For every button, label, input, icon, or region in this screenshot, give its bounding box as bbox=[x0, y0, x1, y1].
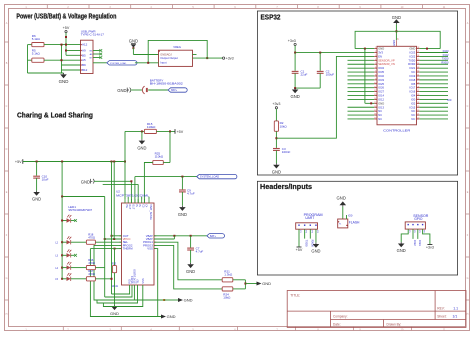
wire VBAT to BAT+ bbox=[154, 235, 207, 237]
wire R13 down gnd bbox=[114, 273, 116, 305]
svg-text:IO14: IO14 bbox=[378, 94, 384, 98]
svg-text:BH-18650-B1BA002: BH-18650-B1BA002 bbox=[150, 82, 183, 86]
svg-text:IO17: IO17 bbox=[409, 86, 415, 90]
svg-text:IO4: IO4 bbox=[411, 94, 416, 98]
svg-text:A5: A5 bbox=[82, 58, 86, 62]
wire B9 row bbox=[62, 64, 81, 66]
net flag BAT+ charging bbox=[207, 234, 225, 238]
junction dots power mesh bbox=[65, 36, 67, 38]
svg-text:IN: IN bbox=[135, 204, 138, 207]
svg-text:GND: GND bbox=[81, 179, 90, 184]
wire system_load to input bbox=[135, 62, 159, 64]
LED1 diode bbox=[67, 218, 71, 222]
svg-text:BAT+: BAT+ bbox=[210, 235, 216, 238]
svg-text:C: C bbox=[6, 105, 8, 108]
U2 top pins bbox=[124, 199, 126, 203]
resistor R2 bbox=[275, 109, 277, 121]
svg-text:Power (USB/Batt) & Voltage Reg: Power (USB/Batt) & Voltage Regulation bbox=[16, 14, 116, 21]
svg-text:GND: GND bbox=[110, 311, 119, 316]
svg-text:VSS: VSS bbox=[141, 278, 145, 283]
svg-text:R13: R13 bbox=[111, 262, 116, 266]
controller right wires bbox=[419, 48, 440, 50]
connector right pins bbox=[93, 50, 100, 52]
svg-text:REV:: REV: bbox=[437, 306, 444, 310]
+3v3 rail symbol bbox=[294, 43, 296, 45]
svg-text:CONTROLLER: CONTROLLER bbox=[383, 129, 411, 133]
capacitor C1 bbox=[294, 53, 296, 71]
svg-text:GND: GND bbox=[186, 269, 195, 274]
svg-text:PG: PG bbox=[125, 204, 128, 208]
wire gnd to battery bbox=[131, 89, 143, 91]
svg-text:OUT: OUT bbox=[131, 204, 134, 210]
net flag SYSTEM_LOAD power bbox=[107, 61, 137, 65]
net label IO0 flash bbox=[346, 215, 348, 219]
svg-text:Input: Input bbox=[160, 61, 166, 65]
wire PROG3 to R24 bbox=[154, 245, 222, 289]
LED column wire bbox=[61, 197, 63, 279]
svg-text:+5V: +5V bbox=[63, 26, 70, 30]
ground C7 bbox=[190, 263, 192, 264]
svg-text:IO0: IO0 bbox=[411, 97, 416, 101]
svg-text:IO32: IO32 bbox=[378, 74, 384, 78]
svg-text:SYSTEM_LOAD: SYSTEM_LOAD bbox=[200, 175, 219, 179]
svg-text:22uF: 22uF bbox=[301, 73, 308, 77]
svg-text:B5: B5 bbox=[82, 53, 86, 57]
title block bbox=[287, 291, 466, 328]
svg-text:470Ω: 470Ω bbox=[88, 272, 95, 276]
wire vreg output bbox=[193, 54, 197, 56]
svg-text:IN: IN bbox=[138, 204, 141, 207]
+3v3 port sensor bbox=[427, 244, 432, 246]
svg-text:IO2: IO2 bbox=[411, 101, 416, 105]
svg-text:1.3kΩ: 1.3kΩ bbox=[224, 273, 233, 277]
net flag SYSTEM_LOAD charging bbox=[135, 176, 197, 178]
svg-text:GND: GND bbox=[378, 47, 384, 51]
ground C3 bbox=[275, 163, 277, 164]
svg-text:GND: GND bbox=[311, 249, 320, 254]
svg-text:A9: A9 bbox=[82, 49, 86, 53]
svg-text:IO26: IO26 bbox=[378, 86, 384, 90]
svg-text:GPIO: GPIO bbox=[414, 217, 423, 221]
svg-text:GND: GND bbox=[178, 212, 187, 217]
svg-text:10kΩ: 10kΩ bbox=[223, 296, 231, 300]
svg-text:GND: GND bbox=[262, 281, 271, 286]
program header pin wires bbox=[298, 229, 300, 247]
svg-text:GND: GND bbox=[167, 314, 176, 319]
svg-text:C: C bbox=[467, 105, 469, 108]
svg-text:+3v3: +3v3 bbox=[226, 57, 234, 61]
svg-text:10uF: 10uF bbox=[42, 177, 49, 181]
wire OUT net bbox=[112, 235, 122, 237]
svg-text:SENSOR_VP: SENSOR_VP bbox=[378, 58, 395, 62]
wire resistors join gnd bbox=[244, 280, 246, 289]
svg-text:4.7uF: 4.7uF bbox=[187, 192, 195, 196]
svg-text:Charing & Load Sharing: Charing & Load Sharing bbox=[17, 112, 93, 119]
+3v3 EN pullup symbol bbox=[275, 107, 277, 109]
gnd right port 2 bbox=[161, 315, 166, 319]
svg-text:IO5: IO5 bbox=[411, 82, 416, 86]
wire R5 to A5 bbox=[44, 59, 81, 61]
svg-text:Date:: Date: bbox=[333, 323, 341, 327]
capacitor C9 bbox=[181, 177, 183, 190]
svg-text:VSS: VSS bbox=[147, 247, 153, 251]
svg-text:G: G bbox=[467, 277, 469, 280]
svg-text:IO22: IO22 bbox=[409, 54, 415, 58]
svg-text:H: H bbox=[6, 313, 8, 316]
gnd right port 1 bbox=[257, 282, 262, 286]
svg-text:Drawn By:: Drawn By: bbox=[387, 323, 402, 327]
svg-text:NC: NC bbox=[411, 113, 415, 117]
svg-text:IO33: IO33 bbox=[378, 78, 384, 82]
svg-text:IO34: IO34 bbox=[378, 66, 384, 70]
svg-text:GND: GND bbox=[409, 47, 415, 51]
svg-text:IO23: IO23 bbox=[409, 51, 415, 55]
svg-text:GND: GND bbox=[117, 88, 126, 93]
svg-text:A12: A12 bbox=[82, 43, 88, 47]
svg-text:+5V: +5V bbox=[177, 130, 184, 134]
wire R25 left down to chip bbox=[144, 163, 152, 204]
wire gnd mid to chip bbox=[94, 180, 131, 182]
svg-text:Sheet:: Sheet: bbox=[437, 315, 446, 319]
svg-text:IO13: IO13 bbox=[378, 105, 384, 109]
svg-text:H: H bbox=[467, 313, 469, 316]
svg-text:+5V: +5V bbox=[296, 248, 303, 252]
svg-text:TE/: TE/ bbox=[136, 279, 140, 283]
svg-text:GND: GND bbox=[392, 40, 396, 46]
svg-text:IO16: IO16 bbox=[409, 90, 415, 94]
power +5V symbol bbox=[65, 31, 67, 33]
svg-text:GND: GND bbox=[129, 39, 138, 44]
wire B12 row bbox=[62, 69, 81, 71]
svg-text:G: G bbox=[6, 277, 8, 280]
wire EN net bbox=[276, 56, 374, 138]
controller top pin bbox=[395, 40, 397, 46]
wire 3v3 down to rail bbox=[294, 46, 296, 53]
svg-text:OUT: OUT bbox=[128, 204, 131, 210]
svg-text:VBAT_SENSE: VBAT_SENSE bbox=[149, 204, 152, 220]
svg-text:TXD0: TXD0 bbox=[442, 57, 449, 61]
svg-text:RXD0: RXD0 bbox=[441, 61, 449, 65]
capacitor C2 bbox=[319, 53, 321, 71]
wire gnd pin link bbox=[364, 49, 366, 104]
gnd program header bbox=[315, 243, 317, 244]
wire PROG1 to R21 bbox=[154, 242, 222, 280]
capacitor C3 bbox=[273, 148, 280, 150]
svg-text:IO33: IO33 bbox=[418, 240, 422, 246]
capacitor C7 bbox=[190, 236, 192, 248]
svg-text:10kΩ: 10kΩ bbox=[280, 124, 288, 128]
svg-text:RXD0: RXD0 bbox=[310, 240, 314, 248]
svg-text:THERM: THERM bbox=[123, 247, 134, 251]
svg-text:5.1kΩ: 5.1kΩ bbox=[32, 52, 41, 56]
ground power section bbox=[63, 73, 65, 74]
gnd loop wires bbox=[355, 31, 440, 48]
svg-text:+3v3: +3v3 bbox=[426, 246, 434, 250]
wire VPCC net bbox=[105, 238, 122, 240]
svg-text:Output Output: Output Output bbox=[160, 56, 178, 60]
ground C9 bbox=[181, 206, 183, 207]
svg-text:+3v3: +3v3 bbox=[272, 102, 280, 106]
gnd below R13 bbox=[114, 305, 116, 306]
svg-text:FLASH: FLASH bbox=[349, 221, 360, 225]
svg-text:4.7uF: 4.7uF bbox=[196, 249, 204, 253]
+5V port R15 bbox=[174, 129, 176, 134]
svg-text:EN: EN bbox=[378, 54, 382, 58]
second feeder wire bbox=[103, 183, 139, 185]
svg-text:IO23: IO23 bbox=[443, 49, 449, 53]
svg-text:TXD0: TXD0 bbox=[408, 58, 415, 62]
wire R6 to A12 bbox=[44, 44, 81, 46]
svg-text:B9: B9 bbox=[82, 63, 86, 67]
net flag BAT+ power bbox=[168, 88, 187, 92]
svg-text:Headers/Inputs: Headers/Inputs bbox=[260, 184, 312, 191]
svg-text:D: D bbox=[6, 148, 8, 151]
wire OUT col up to rail bbox=[111, 162, 113, 236]
svg-text:IO12: IO12 bbox=[378, 97, 384, 101]
svg-text:IO21: IO21 bbox=[409, 66, 415, 70]
svg-text:GND: GND bbox=[290, 94, 299, 99]
svg-text:39: 39 bbox=[398, 38, 400, 40]
gnd under R15 bbox=[141, 131, 143, 139]
svg-text:TYPE-C-31-M-17: TYPE-C-31-M-17 bbox=[81, 32, 105, 36]
3v3 rail to chip bbox=[295, 52, 374, 54]
svg-text:D: D bbox=[467, 148, 469, 151]
wire gnd down to chip bbox=[395, 24, 397, 40]
frame zone ticks bbox=[46, 5, 48, 9]
svg-text:GND: GND bbox=[337, 196, 346, 201]
wire THERM col down bbox=[90, 249, 157, 317]
svg-text:110kΩ: 110kΩ bbox=[147, 125, 156, 129]
svg-text:MCP73871-2CCI/ML: MCP73871-2CCI/ML bbox=[116, 193, 149, 197]
svg-text:+5V: +5V bbox=[15, 160, 22, 164]
U2 top feeder verticals bbox=[124, 162, 126, 200]
wire gnd to vreg bbox=[132, 48, 134, 55]
svg-text:IO35: IO35 bbox=[378, 70, 384, 74]
svg-text:NC: NC bbox=[378, 113, 382, 117]
svg-text:NC: NC bbox=[411, 117, 415, 121]
+5V rail wire bbox=[23, 161, 125, 163]
sensor header wires bbox=[401, 229, 408, 242]
svg-text:NC: NC bbox=[411, 70, 415, 74]
capacitor C10 bbox=[36, 162, 38, 176]
svg-text:1.1: 1.1 bbox=[453, 306, 458, 310]
wire PROG2 col bbox=[94, 245, 164, 300]
svg-text:110kΩ: 110kΩ bbox=[155, 155, 164, 159]
controller left wires bbox=[355, 48, 374, 50]
resistor R24 bbox=[222, 287, 233, 291]
wire B5 row bbox=[66, 54, 81, 56]
svg-text:SMT1N4RGBYW07: SMT1N4RGBYW07 bbox=[68, 208, 92, 212]
svg-text:IO22: IO22 bbox=[443, 53, 449, 57]
svg-text:GND: GND bbox=[378, 101, 384, 105]
wire vertical junction col bbox=[61, 45, 63, 73]
LED rail from +5V bbox=[61, 162, 63, 197]
svg-text:FL: FL bbox=[339, 224, 341, 226]
wire R16 col bbox=[104, 197, 106, 268]
wire VPCC col up to rail bbox=[113, 162, 115, 240]
svg-text:1/1: 1/1 bbox=[453, 315, 458, 319]
svg-text:GND: GND bbox=[272, 169, 281, 174]
svg-text:SENSOR_VN: SENSOR_VN bbox=[378, 62, 395, 66]
svg-text:IO15: IO15 bbox=[409, 105, 415, 109]
svg-text:GND: GND bbox=[137, 145, 146, 150]
svg-text:Company:: Company: bbox=[333, 315, 348, 319]
svg-text:ESP32: ESP32 bbox=[261, 14, 281, 21]
wire +5V down bbox=[65, 33, 67, 56]
svg-text:TXD0: TXD0 bbox=[305, 240, 309, 247]
svg-text:VREG: VREG bbox=[173, 45, 181, 49]
svg-text:BAT+: BAT+ bbox=[171, 89, 177, 92]
svg-text:IO25: IO25 bbox=[378, 82, 384, 86]
wire VSS down bbox=[154, 249, 161, 317]
wire cap bottoms bbox=[295, 87, 320, 89]
U2 bottom loop wires bbox=[112, 285, 130, 294]
svg-text:5.1kΩ: 5.1kΩ bbox=[32, 37, 41, 41]
wire battery to BAT+ bbox=[148, 89, 168, 91]
svg-text:IO27: IO27 bbox=[378, 90, 384, 94]
ground C10 bbox=[36, 191, 38, 192]
resistor R13 bbox=[114, 249, 116, 266]
gnd right port 3 bbox=[178, 298, 183, 302]
svg-text:IO0: IO0 bbox=[447, 98, 452, 102]
svg-text:IO32: IO32 bbox=[413, 240, 417, 246]
svg-text:RXD0: RXD0 bbox=[408, 62, 416, 66]
wire R17 col bbox=[111, 236, 113, 294]
svg-text:NC: NC bbox=[411, 109, 415, 113]
+5V port program bbox=[297, 246, 302, 248]
svg-text:GND: GND bbox=[59, 79, 69, 84]
ground caps bbox=[294, 88, 296, 89]
op chip CONTROLLER U1 bbox=[377, 46, 417, 125]
+3v3 output port bbox=[222, 57, 224, 59]
wire R18 to SEL bbox=[95, 241, 121, 243]
svg-text:GND: GND bbox=[184, 298, 193, 303]
svg-text:B12: B12 bbox=[82, 68, 88, 72]
wire A9 row bbox=[66, 50, 81, 52]
wire CC left rail bbox=[27, 45, 29, 73]
wire VBAT2 bbox=[154, 238, 174, 240]
svg-text:GND: GND bbox=[32, 197, 41, 202]
section box Headers bbox=[257, 181, 457, 275]
svg-text:+3v3: +3v3 bbox=[288, 39, 296, 43]
svg-text:3V3: 3V3 bbox=[378, 51, 383, 55]
wire THERM bbox=[115, 248, 122, 250]
svg-text:470Ω: 470Ω bbox=[88, 235, 95, 239]
svg-text:IO0: IO0 bbox=[348, 213, 353, 217]
svg-text:NC: NC bbox=[378, 117, 382, 121]
svg-text:SYSTEM_LOAD: SYSTEM_LOAD bbox=[110, 62, 127, 65]
svg-text:UART: UART bbox=[305, 216, 314, 220]
feedback loop wires bbox=[148, 40, 207, 62]
svg-text:IO18: IO18 bbox=[409, 78, 415, 82]
svg-text:TITLE:: TITLE: bbox=[290, 294, 300, 298]
battery cell bbox=[142, 86, 144, 94]
gnd sensor header bbox=[400, 242, 402, 243]
svg-text:100nF: 100nF bbox=[282, 150, 291, 154]
svg-text:GND: GND bbox=[397, 248, 406, 253]
section box ESP32 bbox=[257, 11, 457, 175]
svg-text:100uF: 100uF bbox=[326, 73, 335, 77]
svg-text:IO19: IO19 bbox=[409, 74, 415, 78]
svg-text:470Ω: 470Ω bbox=[88, 261, 95, 265]
svg-text:NC: NC bbox=[378, 109, 382, 113]
